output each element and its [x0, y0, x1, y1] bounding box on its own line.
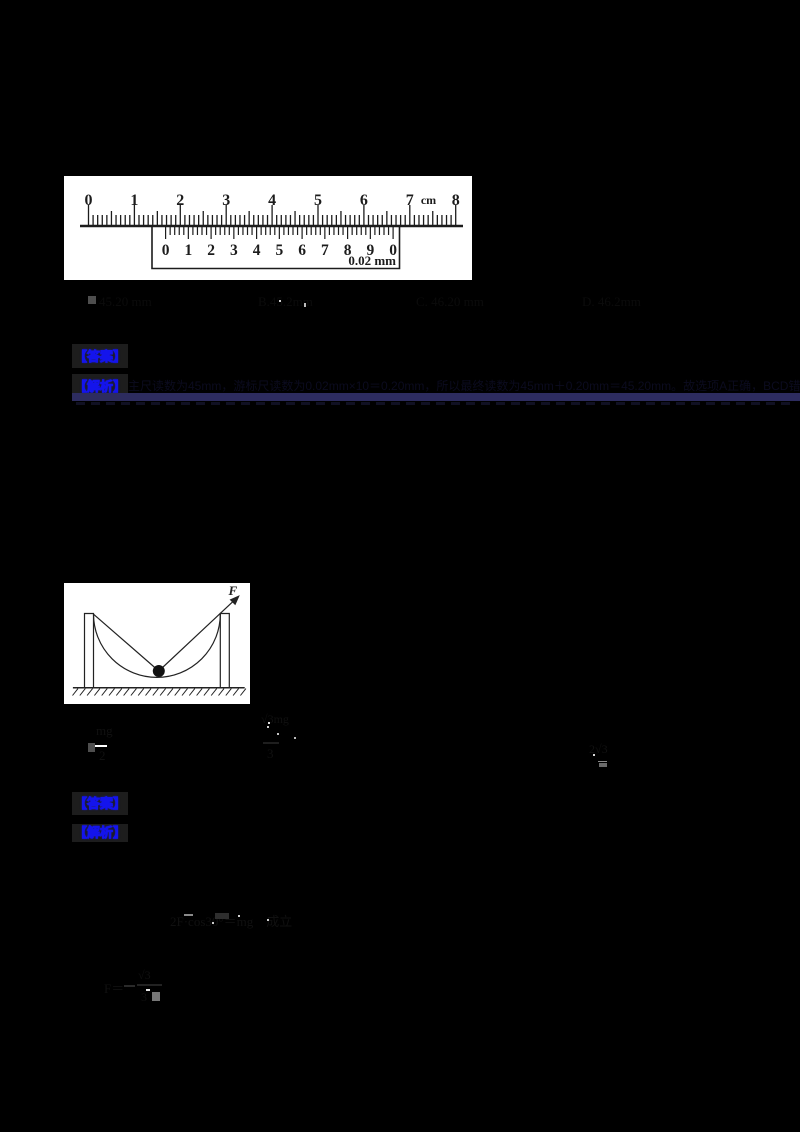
- figure: bowl with ball image block: [64, 583, 250, 704]
- options row 2: option B fraction (faint): [261, 712, 289, 727]
- ground line: [73, 687, 245, 689]
- faint equation line 1: [170, 911, 292, 930]
- answer tag 2: [72, 792, 128, 815]
- svg-text:cm: cm: [421, 193, 436, 207]
- faint equation line 2 (fraction formula): [104, 978, 124, 997]
- left post: [85, 614, 94, 688]
- svg-text:3: 3: [230, 242, 238, 259]
- analysis tag 1: [72, 374, 128, 398]
- svg-text:1: 1: [185, 242, 193, 259]
- svg-text:0: 0: [162, 242, 170, 259]
- svg-text:F: F: [228, 583, 238, 598]
- ground hatching: [73, 689, 246, 696]
- figure: vernier caliper image block: [64, 176, 472, 280]
- analysis line 2 (navy band): [72, 393, 800, 401]
- main scale baseline: [80, 225, 463, 227]
- main scale ticks: [89, 205, 456, 226]
- options row 2: option D fraction (faint): [589, 742, 608, 757]
- svg-text:4: 4: [253, 242, 261, 259]
- options row 2: option A fraction (faint): [88, 743, 95, 752]
- tiny bright specks (scan artifacts): [279, 300, 281, 302]
- analysis line 1 (dark navy smudge): [128, 379, 800, 392]
- svg-text:2: 2: [207, 242, 215, 259]
- analysis line 3 (very faint tails): [76, 402, 792, 405]
- force line F: [159, 598, 237, 671]
- svg-text:7: 7: [321, 242, 329, 259]
- string to left corner: [94, 614, 159, 671]
- bowl arc: [94, 614, 221, 677]
- ball: [153, 665, 165, 677]
- analysis tag 2: [72, 824, 128, 842]
- svg-text:0.02 mm: 0.02 mm: [348, 253, 396, 268]
- svg-text:6: 6: [298, 242, 306, 259]
- vernier box: [152, 226, 400, 269]
- vernier ticks: [166, 226, 394, 239]
- svg-text:5: 5: [276, 242, 284, 259]
- right post: [220, 614, 229, 688]
- options row 1 (faint): [88, 296, 96, 304]
- answer tag 1: [72, 344, 128, 368]
